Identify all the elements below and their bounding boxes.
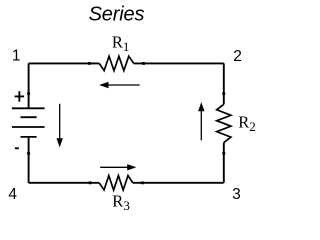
svg-text:3: 3 xyxy=(232,186,241,203)
svg-text:R3: R3 xyxy=(112,192,130,214)
current arrow right (upward, beside R2) xyxy=(198,102,204,140)
battery B1 xyxy=(12,108,45,137)
wire node4 to R3 (bottom left) xyxy=(29,182,100,184)
resistor R1 xyxy=(99,56,134,70)
R2 pin ticks xyxy=(222,92,225,154)
current arrow top (leftward, under R1) xyxy=(99,82,139,88)
svg-text:2: 2 xyxy=(233,48,242,65)
resistor R2 xyxy=(217,104,231,142)
svg-text:Series: Series xyxy=(89,4,145,26)
wire node1 to R1 (top left) xyxy=(29,62,100,64)
svg-text:1: 1 xyxy=(12,48,21,65)
resistor R3 xyxy=(99,176,133,190)
wire R3 to node3 (bottom right) xyxy=(133,182,224,184)
current arrow bottom (rightward, above R3) xyxy=(100,164,136,170)
svg-text:4: 4 xyxy=(8,186,17,203)
wire node2 to R2 (right top) xyxy=(223,63,225,104)
battery + polarity mark xyxy=(15,91,25,101)
wire R1 to node2 (top right) xyxy=(134,62,224,64)
svg-text:R2: R2 xyxy=(238,113,256,135)
wire node1 to battery + terminal (left top) xyxy=(28,63,30,108)
R1 pin ticks xyxy=(88,62,145,65)
R3 pin ticks xyxy=(89,181,144,184)
wire R2 to node3 (right bottom) xyxy=(223,143,225,183)
battery - polarity mark xyxy=(15,147,19,149)
wire battery - terminal to node4 (left bottom) xyxy=(28,137,30,183)
battery pin ticks xyxy=(27,92,30,155)
current arrow left (downward, beside battery) xyxy=(57,104,63,148)
svg-text:R1: R1 xyxy=(112,32,130,54)
